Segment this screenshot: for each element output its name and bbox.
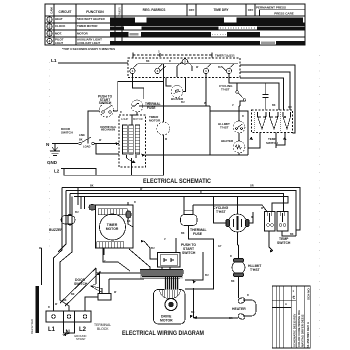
svg-text:OFF: OFF xyxy=(248,8,254,12)
svg-text:BK: BK xyxy=(191,311,195,314)
svg-text:BK: BK xyxy=(272,104,276,107)
table row separators xyxy=(45,23,305,37)
svg-text:GND: GND xyxy=(47,160,58,165)
junction arrow at motor box xyxy=(142,154,146,157)
thermal fuse (wiring) xyxy=(181,210,198,226)
svg-text:CAM: CAM xyxy=(50,7,54,14)
svg-text:BK: BK xyxy=(231,280,235,283)
aux winding xyxy=(135,125,140,154)
door switch (wiring) xyxy=(91,268,112,300)
svg-text:STRAP: STRAP xyxy=(76,337,85,341)
svg-text:N: N xyxy=(46,142,49,147)
wire timer bottom to trunk xyxy=(103,248,130,271)
svg-text:BU: BU xyxy=(75,211,79,214)
temp switch (wiring) xyxy=(265,212,289,232)
svg-text:V: V xyxy=(164,238,166,241)
svg-text:OFF: OFF xyxy=(189,8,195,12)
hi-limit thermostat (schematic) xyxy=(233,121,245,133)
wires hi-limit xyxy=(238,245,239,298)
fuse output rail xyxy=(163,105,210,107)
heater sub-circuit rectangle xyxy=(209,106,211,155)
svg-text:T'HST: T'HST xyxy=(220,126,229,130)
svg-text:LOAD: LOAD xyxy=(83,145,90,149)
drive motor dashed box (schematic) xyxy=(119,115,146,167)
svg-text:SWITCH: SWITCH xyxy=(61,131,73,135)
svg-text:4: 4 xyxy=(157,69,159,73)
svg-text:3: 3 xyxy=(228,69,230,73)
svg-text:MOTOR: MOTOR xyxy=(149,119,161,123)
svg-text:BLOCK: BLOCK xyxy=(97,327,109,331)
svg-text:AUXILIARY LIGHT: AUXILIARY LIGHT xyxy=(77,41,101,45)
svg-text:R: R xyxy=(48,306,50,309)
svg-text:63-4567890 REV A: 63-4567890 REV A xyxy=(306,321,310,348)
svg-text:1: 1 xyxy=(205,69,207,73)
wire fuse right to spine xyxy=(143,105,163,107)
junction arrowheads xyxy=(97,240,274,318)
node N xyxy=(46,142,49,147)
svg-text:5600 WATT HEATER: 5600 WATT HEATER xyxy=(77,17,106,21)
svg-text:R: R xyxy=(200,191,202,194)
centrifugal mechanism label xyxy=(100,126,117,132)
timer terminal lug right xyxy=(126,211,131,218)
temp switch bottom arrows xyxy=(249,137,253,140)
svg-text:DE212 SER: DE212 SER xyxy=(30,319,34,334)
wiring title xyxy=(122,330,204,337)
svg-text:L2: L2 xyxy=(79,327,87,333)
timer motor oval xyxy=(100,214,126,240)
node L2 xyxy=(54,169,60,174)
svg-text:MOTOR: MOTOR xyxy=(160,319,173,323)
svg-text:REG. FABRICS: REG. FABRICS xyxy=(143,8,166,12)
temp switch bottom wires xyxy=(248,133,260,149)
svg-text:TIMER: TIMER xyxy=(215,54,224,58)
svg-text:SWITCH: SWITCH xyxy=(182,251,196,255)
ground strap arrow xyxy=(62,333,67,336)
wire L1 to timer xyxy=(58,62,128,64)
wire push-start area down to motor right xyxy=(185,252,203,280)
svg-text:TIMER: TIMER xyxy=(224,54,235,58)
svg-text:HEAT: HEAT xyxy=(55,17,63,21)
svg-text:L1: L1 xyxy=(51,58,57,64)
svg-text:R: R xyxy=(134,201,136,204)
temp switch dashed box (schematic) xyxy=(252,110,293,133)
svg-text:HEATER: HEATER xyxy=(232,307,246,311)
wires push to start xyxy=(144,241,158,259)
svg-text:CIRCUIT: CIRCUIT xyxy=(59,10,72,14)
timer contact 1 xyxy=(130,64,138,74)
svg-text:L1: L1 xyxy=(48,327,56,333)
svg-text:BK: BK xyxy=(63,299,67,302)
svg-text:TIME DRY: TIME DRY xyxy=(213,8,229,12)
wire door switch to trunk rails xyxy=(100,273,141,294)
svg-text:2: 2 xyxy=(49,25,51,29)
ground symbol GND xyxy=(50,144,60,156)
svg-text:MOT.: MOT. xyxy=(55,32,62,36)
temp switch wires down xyxy=(269,231,273,251)
svg-text:W: W xyxy=(55,303,58,306)
diagonal harness jogs to door switch xyxy=(60,268,96,303)
svg-text:PRESS CARE: PRESS CARE xyxy=(274,12,294,16)
row text labels xyxy=(55,17,106,45)
timer contact 2 xyxy=(155,64,166,74)
push-to-start switch PTS xyxy=(100,103,114,117)
node L1 xyxy=(51,58,57,64)
footnote under table xyxy=(62,47,115,51)
svg-text:MECHANISM: MECHANISM xyxy=(101,128,115,131)
heater chain wires xyxy=(239,101,245,155)
svg-text:1/4HP: 1/4HP xyxy=(121,117,128,121)
svg-text:3: 3 xyxy=(49,32,51,36)
svg-text:R: R xyxy=(230,255,232,258)
corner arrow at heater wire xyxy=(194,316,198,319)
timer contact 4 xyxy=(203,64,211,107)
svg-text:BU: BU xyxy=(205,274,209,277)
schematic wire code labels xyxy=(79,60,292,142)
wire heater bottom up right side of motor xyxy=(193,288,195,318)
minutes scale ruler under table xyxy=(133,53,212,58)
terminal block xyxy=(46,311,91,333)
svg-text:ELECTRICAL WIRING DIAGRAM: ELECTRICAL WIRING DIAGRAM xyxy=(122,330,204,337)
svg-text:FUNCTION: FUNCTION xyxy=(86,10,104,14)
left margin bracket xyxy=(39,248,42,285)
svg-text:BK: BK xyxy=(79,139,83,142)
svg-text:MOTOR: MOTOR xyxy=(106,227,119,231)
svg-text:MOTOR: MOTOR xyxy=(77,32,89,36)
svg-text:MAYTAG DRYER DE212: MAYTAG DRYER DE212 xyxy=(301,314,305,347)
svg-text:TIMER MOTOR: TIMER MOTOR xyxy=(77,24,98,28)
svg-text:SCHEMATIC DE212 REV: SCHEMATIC DE212 REV xyxy=(293,314,297,347)
wire timer contact1 to fuse top xyxy=(133,74,144,99)
svg-text:T'HST: T'HST xyxy=(216,210,227,214)
svg-text:M: M xyxy=(165,138,167,141)
svg-text:W: W xyxy=(204,102,207,105)
svg-text:BK: BK xyxy=(90,185,94,188)
timer contact digits xyxy=(132,60,231,73)
left harness verticals xyxy=(54,188,63,312)
svg-text:4: 4 xyxy=(49,40,51,44)
cycling thermostat (schematic) xyxy=(236,83,279,110)
svg-text:CLOCK: CLOCK xyxy=(55,24,66,28)
svg-text:A: A xyxy=(285,302,287,306)
svg-text:1: 1 xyxy=(293,289,295,293)
svg-text:*TOP 3 SECONDS EVERY 5 MINUTES: *TOP 3 SECONDS EVERY 5 MINUTES xyxy=(62,47,115,51)
table header row xyxy=(45,4,305,45)
wiring diagram wire code labels xyxy=(48,185,294,321)
svg-text:BU: BU xyxy=(181,101,185,104)
svg-text:BK: BK xyxy=(290,233,294,236)
dryness thermostat contacts xyxy=(263,83,269,110)
svg-text:LIGHT: LIGHT xyxy=(55,41,63,45)
svg-text:BUZZER: BUZZER xyxy=(49,228,63,232)
svg-text:TIMER: TIMER xyxy=(118,7,122,17)
svg-text:PERMANENT PRESS: PERMANENT PRESS xyxy=(256,6,286,10)
svg-text:BK: BK xyxy=(127,220,131,223)
svg-text:L2: L2 xyxy=(54,169,60,174)
svg-text:R: R xyxy=(247,294,249,297)
wire to timer box left xyxy=(81,197,85,210)
timer contact 5 xyxy=(221,64,237,84)
svg-text:LINE: LINE xyxy=(79,133,85,137)
svg-text:1: 1 xyxy=(132,69,134,73)
timer terminal lug top-left xyxy=(89,205,96,211)
svg-text:HEATER: HEATER xyxy=(221,139,234,143)
wire pts left to N xyxy=(88,111,100,144)
timer chart black bars row1 xyxy=(110,17,303,22)
timer bus spine down xyxy=(162,64,164,106)
svg-text:T'HST: T'HST xyxy=(250,268,261,272)
N wire xyxy=(52,143,78,145)
arrow into motor box xyxy=(116,142,119,145)
svg-text:W: W xyxy=(114,291,117,294)
drive motor (wiring) xyxy=(154,290,186,325)
left margin small text xyxy=(30,319,34,334)
timer sequence chart table frame xyxy=(45,4,305,45)
tick marks in chart gaps xyxy=(212,28,256,34)
heater (wiring) xyxy=(237,297,256,320)
timer dashed box xyxy=(128,58,240,78)
heater (schematic) xyxy=(233,141,245,153)
wires terminal block up xyxy=(85,297,98,311)
svg-text:OR: OR xyxy=(250,185,254,188)
timer bottom terminal strip xyxy=(97,242,124,248)
svg-text:R: R xyxy=(251,216,253,219)
wire buzzer right up to timer xyxy=(183,78,186,92)
timer box (wiring) xyxy=(96,205,134,248)
svg-text:SWITCH: SWITCH xyxy=(99,101,112,105)
schematic title xyxy=(143,178,211,185)
wires from timer bottom xyxy=(103,248,105,255)
hi-limit thermostat (wiring) xyxy=(232,259,245,277)
wire fuse bottom into motor box xyxy=(132,112,137,125)
svg-text:W: W xyxy=(196,66,199,69)
buzzer (schematic) xyxy=(171,86,183,98)
svg-text:R: R xyxy=(169,60,171,63)
schematic bottom rail xyxy=(64,169,163,176)
centrifugal switch in motor xyxy=(127,155,137,167)
wire fuse verticals xyxy=(184,197,214,272)
svg-text:R: R xyxy=(120,111,122,114)
timer motor (schematic) xyxy=(157,122,170,135)
header labels xyxy=(50,6,294,17)
svg-text:Y: Y xyxy=(104,260,106,263)
L2 wire xyxy=(61,169,96,176)
svg-text:SWITCH: SWITCH xyxy=(277,241,291,245)
row number circles 1-4 xyxy=(47,17,52,44)
svg-text:ELECTRICAL SCHEMATIC: ELECTRICAL SCHEMATIC xyxy=(143,178,211,185)
wires cycling thst xyxy=(214,197,254,224)
main winding xyxy=(123,125,128,154)
motor harness trunk xyxy=(140,269,183,279)
svg-text:GY: GY xyxy=(218,245,222,248)
svg-text:CENTRIFUGAL: CENTRIFUGAL xyxy=(100,126,117,129)
svg-text:V: V xyxy=(232,104,234,107)
svg-text:R: R xyxy=(242,115,244,118)
svg-text:1: 1 xyxy=(49,18,51,22)
timer chart black bars row3 xyxy=(110,32,260,37)
motor box bottom connection xyxy=(131,167,133,175)
svg-text:BK: BK xyxy=(146,60,150,63)
left fold dotted line xyxy=(49,62,51,250)
wire fuse-line down to motor right xyxy=(185,271,214,289)
timer top terminal strip xyxy=(98,209,127,215)
motor connector hatch xyxy=(160,290,181,299)
svg-text:BK: BK xyxy=(181,232,185,235)
top harness rails xyxy=(62,188,300,231)
svg-text:OR: OR xyxy=(288,106,292,109)
start winding xyxy=(129,125,134,154)
svg-text:BU: BU xyxy=(151,247,155,250)
wire timer to buzzer left xyxy=(166,78,172,87)
timer contact 3 top xyxy=(177,59,192,77)
svg-text:FUSE: FUSE xyxy=(193,232,203,236)
svg-text:BK: BK xyxy=(71,293,75,296)
heater wires xyxy=(194,298,239,318)
thermal fuse (schematic) xyxy=(131,100,143,112)
svg-text:5: 5 xyxy=(158,50,160,54)
buzzer (wiring) xyxy=(61,215,75,226)
left margin black bar xyxy=(36,286,40,333)
svg-text:T'HST: T'HST xyxy=(221,88,230,92)
right fold dotted line xyxy=(318,55,320,340)
push to start switch (wiring) xyxy=(158,253,181,268)
timer internal wire xyxy=(138,63,238,65)
svg-text:2: 2 xyxy=(184,60,186,64)
timer chart black bars row2 xyxy=(110,23,305,29)
svg-text:SCH NO: SCH NO xyxy=(307,288,311,300)
timer chart black bars row4 xyxy=(110,41,305,44)
wire door switch to motor xyxy=(94,143,119,145)
door switch (schematic) xyxy=(79,137,94,145)
wire pts right up to timer bus xyxy=(114,82,164,112)
svg-text:BK: BK xyxy=(229,317,233,320)
right nested wires from timer xyxy=(240,65,295,110)
wire buzzer down xyxy=(58,244,66,252)
temp switch contacts xyxy=(255,112,291,131)
wire timer right to thermal fuse xyxy=(127,202,129,205)
cycling thermostat (wiring) xyxy=(226,211,249,232)
svg-text:MOTOR: MOTOR xyxy=(133,117,143,121)
wire timer motor chain xyxy=(162,106,164,175)
svg-text:BU: BU xyxy=(218,66,222,69)
svg-text:W: W xyxy=(99,139,102,142)
